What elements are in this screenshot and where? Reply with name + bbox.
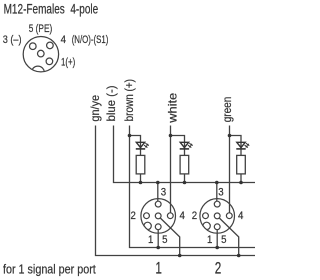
svg-text:5: 5 <box>221 233 226 246</box>
svg-text:2: 2 <box>192 209 197 222</box>
svg-text:white: white <box>166 92 180 123</box>
svg-text:4: 4 <box>238 209 243 222</box>
svg-text:2: 2 <box>131 209 136 222</box>
svg-text:for 1 signal per port: for 1 signal per port <box>3 261 96 276</box>
svg-text:1: 1 <box>148 233 153 246</box>
svg-text:blue (-): blue (-) <box>104 86 118 122</box>
svg-text:(N/O)-(S1): (N/O)-(S1) <box>72 34 109 46</box>
svg-text:5: 5 <box>162 233 167 246</box>
svg-text:1(+): 1(+) <box>61 57 75 69</box>
svg-text:green: green <box>220 97 234 123</box>
svg-text:2: 2 <box>215 260 222 278</box>
svg-text:brown (+): brown (+) <box>122 79 136 121</box>
svg-text:1: 1 <box>207 233 212 246</box>
svg-text:gn/ye: gn/ye <box>88 95 102 122</box>
svg-text:5 (PE): 5 (PE) <box>29 23 53 35</box>
svg-text:M12-Females 4-pole: M12-Females 4-pole <box>4 1 99 16</box>
svg-text:4: 4 <box>180 209 185 222</box>
svg-text:3: 3 <box>161 186 166 199</box>
svg-text:4: 4 <box>61 34 66 46</box>
svg-text:3: 3 <box>218 186 223 199</box>
svg-text:3 (–): 3 (–) <box>3 34 22 46</box>
svg-text:1: 1 <box>155 260 162 278</box>
